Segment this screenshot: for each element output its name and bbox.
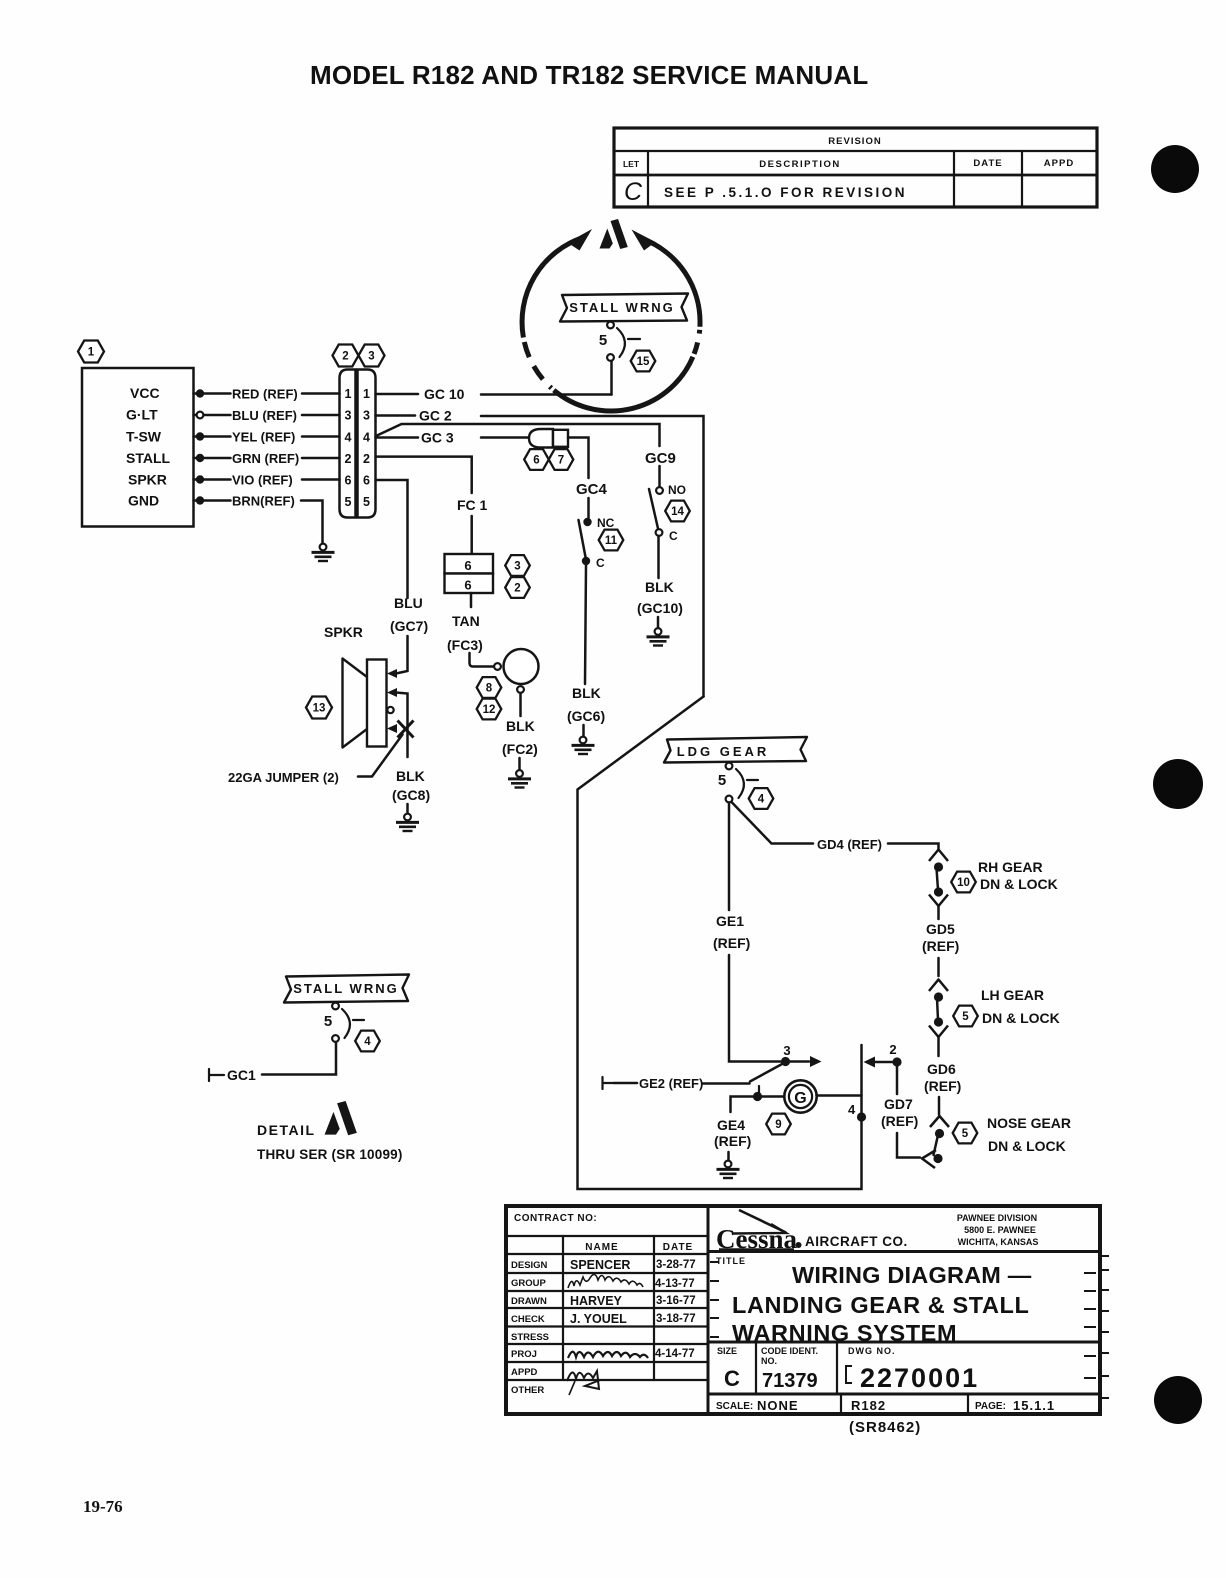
connector P2 column (340, 370, 356, 518)
svg-text:9: 9 (775, 1119, 781, 1131)
svg-text:NO.: NO. (761, 1356, 777, 1366)
svg-text:71379: 71379 (762, 1370, 818, 1392)
svg-text:(GC10): (GC10) (637, 600, 683, 616)
svg-text:3: 3 (363, 409, 370, 423)
svg-text:CHECK: CHECK (511, 1314, 545, 1325)
svg-text:BLU: BLU (394, 595, 423, 611)
ground BRN (312, 544, 335, 561)
RH gear dn&lock switch (929, 850, 1058, 920)
wire GND/BRN (194, 499, 231, 502)
svg-text:LANDING GEAR & STALL: LANDING GEAR & STALL (732, 1292, 1029, 1318)
svg-text:C: C (724, 1366, 740, 1391)
svg-text:REVISION: REVISION (828, 136, 881, 147)
svg-text:4: 4 (848, 1102, 856, 1117)
main loop wires (578, 697, 862, 1190)
switch GC4 (567, 481, 623, 754)
svg-text:DESIGN: DESIGN (511, 1260, 548, 1271)
switch GC9 (637, 450, 690, 646)
svg-text:GROUP: GROUP (511, 1278, 547, 1289)
X mark (unused terminal) (398, 721, 414, 738)
svg-text:STALL WRNG: STALL WRNG (293, 981, 398, 996)
callout hex 9 (766, 1114, 791, 1135)
svg-text:12: 12 (483, 704, 496, 716)
breaker contact top (607, 322, 614, 329)
wire SPKR/VIO (194, 478, 231, 481)
svg-text:4: 4 (363, 431, 370, 445)
ground (FC2) (508, 770, 531, 787)
LDG GEAR banner + switch (664, 737, 807, 809)
contact NC (583, 518, 591, 526)
svg-text:(SR8462): (SR8462) (849, 1419, 921, 1436)
callout hex 14 (665, 501, 690, 522)
svg-text:GC 3: GC 3 (421, 430, 454, 446)
svg-text:3: 3 (514, 561, 520, 573)
G meter (731, 1080, 867, 1134)
svg-text:BLK: BLK (645, 579, 674, 595)
svg-text:BLK: BLK (396, 768, 425, 784)
svg-text:WICHITA, KANSAS: WICHITA, KANSAS (958, 1237, 1039, 1247)
contact C (582, 557, 590, 565)
gear indicator meter G (784, 1080, 816, 1112)
speaker LS1 (367, 660, 387, 747)
connector P3 column (358, 370, 376, 518)
svg-text:DATE: DATE (973, 158, 1002, 169)
svg-text:13: 13 (313, 703, 326, 715)
svg-text:NAME: NAME (585, 1242, 618, 1253)
wire BLK (FC2) (519, 693, 522, 716)
wire GE2 (603, 1064, 784, 1092)
node 1 (753, 1092, 762, 1101)
svg-text:GC1: GC1 (227, 1067, 256, 1083)
svg-text:3-28-77: 3-28-77 (656, 1259, 696, 1271)
horn input terminal (494, 663, 501, 670)
svg-text:PAGE:: PAGE: (975, 1401, 1006, 1412)
wire pin2 to FC1 fuse (376, 457, 488, 554)
svg-text:NC: NC (597, 516, 615, 530)
svg-text:J. YOUEL: J. YOUEL (570, 1312, 627, 1326)
switch blade (579, 520, 586, 557)
svg-text:GRN (REF): GRN (REF) (232, 451, 299, 466)
svg-text:4-13-77: 4-13-77 (655, 1278, 695, 1290)
svg-text:CONTRACT NO:: CONTRACT NO: (514, 1213, 597, 1224)
wire down from contact (610, 361, 613, 395)
svg-text:7: 7 (558, 455, 564, 467)
svg-text:STRESS: STRESS (511, 1332, 549, 1343)
svg-text:4: 4 (758, 794, 765, 806)
ground (GE4) (717, 1161, 740, 1178)
svg-text:14: 14 (671, 506, 684, 518)
callout hex 13 (306, 697, 332, 719)
breaker contact bottom (726, 796, 733, 803)
svg-text:DESCRIPTION: DESCRIPTION (759, 159, 840, 170)
svg-text:NOSE GEAR: NOSE GEAR (987, 1115, 1071, 1131)
svg-text:FC 1: FC 1 (457, 497, 488, 513)
revision table (614, 128, 1097, 207)
svg-text:3-16-77: 3-16-77 (656, 1295, 696, 1307)
arrowhead right (632, 230, 656, 251)
speaker terminal arrows (387, 669, 397, 678)
wire VCC/RED (194, 392, 231, 395)
title block (506, 1206, 1109, 1436)
LH gear dn&lock switch (929, 980, 1060, 1057)
svg-text:(REF): (REF) (924, 1078, 961, 1094)
svg-text:CODE IDENT.: CODE IDENT. (761, 1346, 818, 1356)
svg-text:OTHER: OTHER (511, 1385, 544, 1396)
svg-text:(GC6): (GC6) (567, 708, 605, 724)
wire GC1 (262, 1042, 336, 1075)
svg-text:(REF): (REF) (922, 938, 959, 954)
svg-text:5: 5 (599, 332, 607, 349)
svg-text:6: 6 (345, 474, 352, 488)
callout hex 4 (749, 788, 774, 809)
svg-text:RED (REF): RED (REF) (232, 387, 298, 402)
svg-text:GE4: GE4 (717, 1117, 745, 1133)
horn ground terminal (517, 686, 524, 693)
svg-text:6: 6 (464, 558, 471, 573)
svg-text:(FC3): (FC3) (447, 637, 483, 653)
switch blade (649, 489, 658, 529)
svg-text:5: 5 (345, 495, 352, 509)
svg-text:GE1: GE1 (716, 913, 744, 929)
wire GC2 (376, 408, 704, 697)
callout hex 6 (524, 449, 549, 470)
svg-text:DWG NO.: DWG NO. (848, 1346, 896, 1356)
size row (755, 1342, 757, 1394)
callout hex 3 (359, 345, 385, 367)
svg-text:(REF): (REF) (713, 935, 750, 951)
svg-text:DATE: DATE (663, 1242, 693, 1253)
breaker capsule 6x7 (524, 429, 588, 478)
svg-text:GC9: GC9 (645, 450, 676, 467)
equipment box (1) (78, 341, 194, 527)
svg-text:2270001: 2270001 (860, 1363, 979, 1393)
svg-text:GD4 (REF): GD4 (REF) (817, 837, 882, 852)
svg-text:2: 2 (514, 583, 520, 595)
svg-text:2: 2 (342, 351, 348, 363)
svg-text:22GA JUMPER (2): 22GA JUMPER (2) (228, 770, 339, 785)
stall wrng banner (circle detail) (560, 294, 688, 395)
bottom-left stall wrng detail (209, 975, 409, 1163)
svg-text:(FC2): (FC2) (502, 741, 538, 757)
wire BLK GC10 (657, 536, 660, 578)
svg-text:VIO (REF): VIO (REF) (232, 473, 293, 488)
label GD6 (924, 1061, 961, 1115)
callout hex 12 (477, 699, 502, 720)
breaker contact bottom (332, 1035, 339, 1042)
svg-text:C: C (669, 529, 678, 543)
svg-text:STALL WRNG: STALL WRNG (569, 300, 674, 315)
binder hole middle (1153, 759, 1203, 809)
binder hole top (1151, 145, 1199, 193)
callout hex 2 (333, 345, 359, 367)
ground (GC6) (572, 737, 595, 754)
svg-text:LH GEAR: LH GEAR (981, 987, 1044, 1003)
svg-text:10: 10 (957, 877, 970, 889)
scale row (840, 1394, 842, 1414)
svg-text:2: 2 (345, 452, 352, 466)
svg-text:8: 8 (486, 683, 493, 695)
wires box to connector (194, 387, 340, 562)
svg-text:4: 4 (364, 1036, 371, 1048)
wire TAN FC3 to horn (447, 593, 494, 667)
horn (477, 649, 539, 788)
svg-text:3: 3 (368, 351, 374, 363)
callout hex 10 (951, 872, 976, 893)
svg-text:6: 6 (363, 474, 370, 488)
svg-text:GC4: GC4 (576, 481, 608, 498)
circle arcs (522, 237, 583, 337)
svg-text:SPKR: SPKR (324, 624, 363, 640)
svg-text:6: 6 (464, 578, 471, 593)
svg-text:19-76: 19-76 (83, 1497, 123, 1516)
svg-text:SIZE: SIZE (717, 1346, 737, 1356)
callout hex 8 (477, 677, 502, 698)
svg-text:6: 6 (533, 455, 539, 467)
wire GC10 (376, 386, 612, 402)
svg-text:DETAIL: DETAIL (257, 1122, 316, 1138)
wire STALL/GRN (194, 457, 231, 460)
wire GD7 (864, 1042, 921, 1158)
svg-text:5800 E. PAWNEE: 5800 E. PAWNEE (964, 1225, 1036, 1235)
svg-text:SPENCER: SPENCER (570, 1258, 630, 1272)
svg-text:THRU SER (SR 10099): THRU SER (SR 10099) (257, 1147, 403, 1162)
label GD5 (922, 921, 959, 976)
callout hex 3 (fuse) (505, 555, 530, 576)
svg-text:PAWNEE DIVISION: PAWNEE DIVISION (957, 1213, 1037, 1223)
svg-text:BLU (REF): BLU (REF) (232, 408, 297, 423)
svg-text:RH GEAR: RH GEAR (978, 859, 1043, 875)
svg-text:VCC: VCC (130, 385, 160, 401)
svg-text:HARVEY: HARVEY (570, 1294, 623, 1308)
contact C (656, 529, 663, 536)
callout hex 5 (LH) (953, 1006, 978, 1027)
svg-text:5: 5 (324, 1013, 332, 1030)
svg-text:GD6: GD6 (927, 1061, 956, 1077)
wire GE4 + ground (714, 1117, 751, 1178)
svg-text:GC 2: GC 2 (419, 408, 452, 424)
fuse block 6/6 with hex 3,2 (445, 554, 530, 598)
callout hex 7 (549, 449, 574, 470)
svg-text:AIRCRAFT CO.: AIRCRAFT CO. (805, 1234, 908, 1249)
svg-text:DRAWN: DRAWN (511, 1296, 547, 1307)
callout hex 4 (detail) (355, 1031, 380, 1052)
svg-text:5: 5 (962, 1011, 969, 1023)
ground (GC10) (647, 628, 670, 645)
svg-text:TITLE: TITLE (716, 1256, 746, 1266)
svg-text:BLK: BLK (572, 685, 601, 701)
svg-text:(GC7): (GC7) (390, 618, 428, 634)
svg-text:1: 1 (363, 387, 370, 401)
svg-text:5: 5 (962, 1128, 969, 1140)
equipment box U1 (stall warning unit) (82, 368, 194, 527)
svg-text:STALL: STALL (126, 450, 171, 466)
svg-text:TAN: TAN (452, 613, 480, 629)
svg-text:APPD: APPD (511, 1367, 538, 1378)
svg-text:15: 15 (637, 356, 650, 368)
wire G-LT/BLU (194, 414, 231, 417)
callout hex 5 (nose) (953, 1123, 978, 1144)
svg-text:2: 2 (889, 1042, 896, 1057)
callout hex 1 (78, 341, 104, 363)
svg-text:(REF): (REF) (881, 1113, 918, 1129)
svg-text:(REF): (REF) (714, 1133, 751, 1149)
breaker contact top (726, 763, 733, 770)
svg-text:WIRING DIAGRAM —: WIRING DIAGRAM — (792, 1262, 1032, 1288)
svg-text:NONE: NONE (757, 1398, 799, 1413)
svg-text:R182: R182 (851, 1398, 886, 1413)
connector (2)(3) (333, 345, 385, 518)
svg-text:4-14-77: 4-14-77 (655, 1348, 695, 1360)
callout hex 15 (631, 351, 656, 372)
svg-text:DN & LOCK: DN & LOCK (982, 1010, 1060, 1026)
svg-text:G: G (794, 1090, 806, 1107)
speaker (228, 624, 430, 831)
detail circle A (522, 219, 700, 411)
wire BLK GC6 (585, 565, 586, 684)
wire T-SW/YEL (194, 435, 231, 438)
svg-text:15.1.1: 15.1.1 (1013, 1398, 1055, 1413)
svg-text:3: 3 (345, 409, 352, 423)
svg-text:GE2 (REF): GE2 (REF) (639, 1076, 703, 1091)
wire BLK (GC8) (396, 693, 408, 758)
actuator arc (617, 328, 625, 357)
svg-text:11: 11 (605, 535, 618, 547)
callout hex 2 (fuse) (505, 577, 530, 598)
svg-text:GD5: GD5 (926, 921, 955, 937)
svg-text:MODEL R182 AND TR182 SERVICE M: MODEL R182 AND TR182 SERVICE MANUAL (310, 60, 868, 90)
svg-text:APPD: APPD (1044, 158, 1074, 169)
svg-text:4: 4 (345, 431, 352, 445)
svg-text:1: 1 (345, 387, 352, 401)
svg-text:C: C (624, 178, 643, 206)
ground (GC8) (396, 814, 419, 831)
signatures (568, 1274, 643, 1288)
svg-text:GC 10: GC 10 (424, 386, 465, 402)
svg-text:BLK: BLK (506, 718, 535, 734)
wire GC3 (376, 430, 530, 446)
svg-text:DN & LOCK: DN & LOCK (980, 876, 1058, 892)
nose gear dn&lock switch (922, 1115, 1071, 1168)
wire pin6 BLU GC7 down (376, 480, 428, 674)
stall warning horn (504, 649, 539, 684)
svg-text:PROJ: PROJ (511, 1349, 537, 1360)
breaker contact top (332, 1003, 339, 1010)
svg-text:SPKR: SPKR (128, 472, 167, 488)
callout hex 11 (599, 530, 624, 551)
arrowhead left (568, 229, 593, 251)
svg-text:SEE P .5.1.O FOR REVISION: SEE P .5.1.O FOR REVISION (664, 185, 907, 200)
svg-text:C: C (596, 556, 605, 570)
wire GC3 upper branch to GC9 (376, 424, 660, 446)
svg-text:3: 3 (783, 1043, 790, 1058)
cessna logo (716, 1210, 908, 1254)
svg-text:GND: GND (128, 493, 159, 509)
svg-text:LET: LET (623, 159, 640, 169)
svg-text:NO: NO (668, 483, 686, 497)
contact NO (656, 487, 663, 494)
svg-text:YEL (REF): YEL (REF) (232, 430, 295, 445)
pin numbers 1 3 4 2 6 5 (345, 387, 371, 509)
svg-text:3-18-77: 3-18-77 (656, 1313, 696, 1325)
svg-text:LDG GEAR: LDG GEAR (677, 744, 770, 759)
svg-text:BRN(REF): BRN(REF) (232, 494, 295, 509)
binder hole bottom (1154, 1376, 1202, 1424)
svg-text:G·LT: G·LT (126, 407, 158, 423)
svg-text:T-SW: T-SW (126, 429, 162, 445)
svg-text:2: 2 (363, 452, 370, 466)
wire GE1 + switch to G (713, 803, 822, 1068)
svg-text:GD7: GD7 (884, 1096, 913, 1112)
svg-text:SCALE:: SCALE: (716, 1401, 753, 1412)
fold ticks (710, 1256, 1109, 1398)
svg-text:DN & LOCK: DN & LOCK (988, 1138, 1066, 1154)
svg-text:5: 5 (363, 495, 370, 509)
A logo top (600, 219, 628, 249)
svg-text:1: 1 (88, 347, 95, 359)
wire GD4 (732, 802, 939, 852)
svg-text:(GC8): (GC8) (392, 787, 430, 803)
svg-text:5: 5 (718, 772, 726, 789)
breaker contact bottom (607, 354, 614, 361)
